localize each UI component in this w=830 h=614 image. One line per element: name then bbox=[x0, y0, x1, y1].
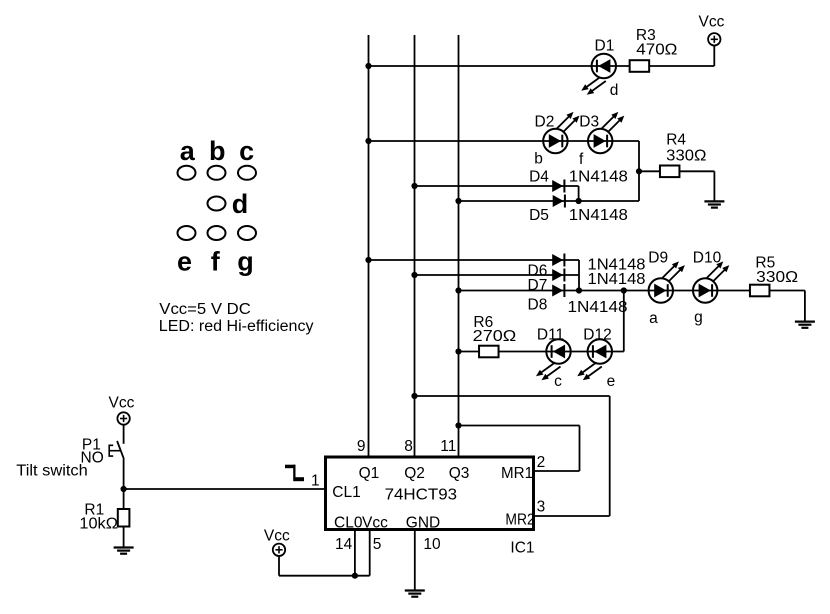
svg-text:D10: D10 bbox=[693, 250, 722, 267]
svg-text:2: 2 bbox=[537, 454, 546, 471]
svg-text:a: a bbox=[649, 310, 658, 327]
svg-text:c: c bbox=[554, 373, 562, 390]
svg-text:e: e bbox=[177, 247, 192, 277]
svg-text:1: 1 bbox=[311, 472, 320, 489]
svg-text:1N4148: 1N4148 bbox=[568, 299, 628, 316]
svg-text:9: 9 bbox=[357, 438, 366, 455]
svg-text:330Ω: 330Ω bbox=[666, 147, 706, 164]
svg-text:d: d bbox=[232, 189, 249, 219]
svg-text:14: 14 bbox=[335, 536, 353, 553]
svg-text:10kΩ: 10kΩ bbox=[79, 516, 118, 533]
svg-text:f: f bbox=[579, 151, 584, 168]
svg-text:D7: D7 bbox=[528, 277, 548, 294]
svg-text:D8: D8 bbox=[528, 297, 548, 314]
svg-text:Q2: Q2 bbox=[404, 465, 425, 482]
svg-text:MR2: MR2 bbox=[505, 512, 534, 529]
svg-text:CL1: CL1 bbox=[332, 484, 360, 501]
svg-text:g: g bbox=[237, 247, 254, 277]
svg-text:D2: D2 bbox=[535, 114, 555, 131]
svg-text:470Ω: 470Ω bbox=[636, 42, 677, 59]
svg-text:Vcc: Vcc bbox=[109, 395, 135, 412]
svg-text:IC1: IC1 bbox=[510, 539, 534, 556]
svg-text:1N4148: 1N4148 bbox=[588, 271, 646, 288]
svg-text:d: d bbox=[610, 82, 619, 99]
svg-text:a: a bbox=[180, 136, 196, 166]
svg-text:g: g bbox=[694, 309, 703, 326]
svg-text:330Ω: 330Ω bbox=[756, 269, 798, 286]
svg-text:1N4148: 1N4148 bbox=[569, 169, 628, 186]
svg-text:1N4148: 1N4148 bbox=[569, 207, 628, 224]
svg-text:R4: R4 bbox=[666, 131, 686, 148]
svg-text:10: 10 bbox=[423, 536, 441, 553]
svg-text:CL0: CL0 bbox=[334, 514, 363, 531]
svg-text:8: 8 bbox=[404, 438, 413, 455]
svg-text:D3: D3 bbox=[579, 114, 599, 131]
svg-text:Vcc: Vcc bbox=[264, 528, 290, 545]
svg-text:D11: D11 bbox=[537, 327, 564, 344]
svg-text:11: 11 bbox=[440, 438, 456, 455]
svg-text:f: f bbox=[211, 247, 221, 277]
svg-text:MR1: MR1 bbox=[501, 465, 533, 482]
svg-text:D1: D1 bbox=[595, 38, 615, 55]
svg-text:c: c bbox=[239, 136, 254, 166]
svg-text:Tilt switch: Tilt switch bbox=[16, 463, 88, 480]
svg-text:D9: D9 bbox=[648, 250, 668, 267]
svg-text:74HCT93: 74HCT93 bbox=[385, 486, 458, 503]
svg-text:D4: D4 bbox=[529, 169, 549, 186]
svg-text:Q1: Q1 bbox=[359, 465, 380, 482]
svg-text:b: b bbox=[534, 151, 543, 168]
svg-text:3: 3 bbox=[537, 498, 546, 515]
svg-text:b: b bbox=[209, 136, 226, 166]
svg-text:Vcc=5 V DC: Vcc=5 V DC bbox=[159, 301, 251, 318]
svg-text:Vcc: Vcc bbox=[362, 514, 388, 531]
svg-text:Vcc: Vcc bbox=[699, 14, 725, 31]
svg-text:e: e bbox=[607, 373, 616, 390]
svg-text:D5: D5 bbox=[529, 207, 549, 224]
svg-text:D12: D12 bbox=[583, 327, 611, 344]
svg-text:270Ω: 270Ω bbox=[473, 328, 517, 345]
svg-text:Q3: Q3 bbox=[449, 465, 470, 482]
svg-text:LED: red Hi-efficiency: LED: red Hi-efficiency bbox=[159, 318, 314, 335]
svg-text:5: 5 bbox=[373, 536, 382, 553]
svg-text:GND: GND bbox=[406, 514, 440, 531]
